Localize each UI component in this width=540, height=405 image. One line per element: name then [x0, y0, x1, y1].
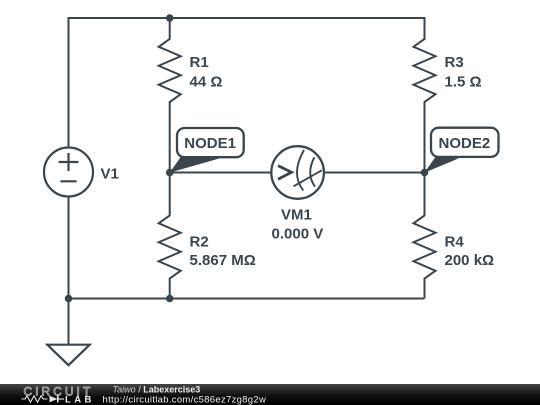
wire: bottom rail — [69, 298, 425, 300]
svg-text:R1: R1 — [190, 54, 209, 71]
svg-text:Taiwo / Labexercise3: Taiwo / Labexercise3 — [113, 385, 201, 395]
svg-text:http://circuitlab.com/c586ez7z: http://circuitlab.com/c586ez7zg8g2w — [103, 394, 267, 405]
svg-text:VM1: VM1 — [281, 207, 312, 224]
junction: R2 bottom — [166, 295, 174, 303]
svg-text:200 kΩ: 200 kΩ — [445, 252, 495, 269]
junction: NODE2 — [421, 169, 429, 177]
svg-text:0.000 V: 0.000 V — [272, 226, 324, 243]
svg-text:R2: R2 — [190, 234, 209, 251]
voltmeter VM1 — [271, 146, 324, 242]
junction: NODE1 — [166, 169, 174, 177]
svg-text:1.5 Ω: 1.5 Ω — [445, 74, 482, 91]
node label NODE2 — [425, 128, 499, 173]
svg-text:NODE1: NODE1 — [184, 135, 236, 152]
wire: voltmeter to NODE2 — [324, 172, 425, 174]
svg-text:NODE2: NODE2 — [439, 135, 491, 152]
wire: top rail with left drop to V1 and right drop to R3 — [69, 18, 425, 148]
voltage source V1 — [44, 148, 119, 197]
svg-text:V1: V1 — [101, 166, 119, 183]
resistor R4 — [414, 173, 495, 299]
svg-text:LAB: LAB — [65, 395, 95, 405]
node label NODE1 — [170, 128, 244, 173]
svg-text:R3: R3 — [445, 54, 464, 71]
svg-text:44 Ω: 44 Ω — [190, 74, 223, 91]
resistor R3 — [414, 18, 482, 173]
logo CircuitLab: diode symbol — [50, 396, 58, 403]
ground — [47, 299, 89, 366]
junction: ground node — [65, 295, 73, 303]
logo CircuitLab: resistor squiggle — [22, 396, 48, 402]
wire: left rail bottom (V1 to bottom rail) — [68, 197, 70, 299]
wire: NODE1 to voltmeter — [170, 172, 272, 174]
svg-text:5.867 MΩ: 5.867 MΩ — [190, 252, 256, 269]
resistor R1 — [159, 18, 223, 173]
footer bar — [0, 384, 540, 405]
resistor R2 — [159, 173, 256, 299]
junction: top rail / R1 — [166, 14, 174, 22]
svg-text:R4: R4 — [445, 234, 465, 251]
